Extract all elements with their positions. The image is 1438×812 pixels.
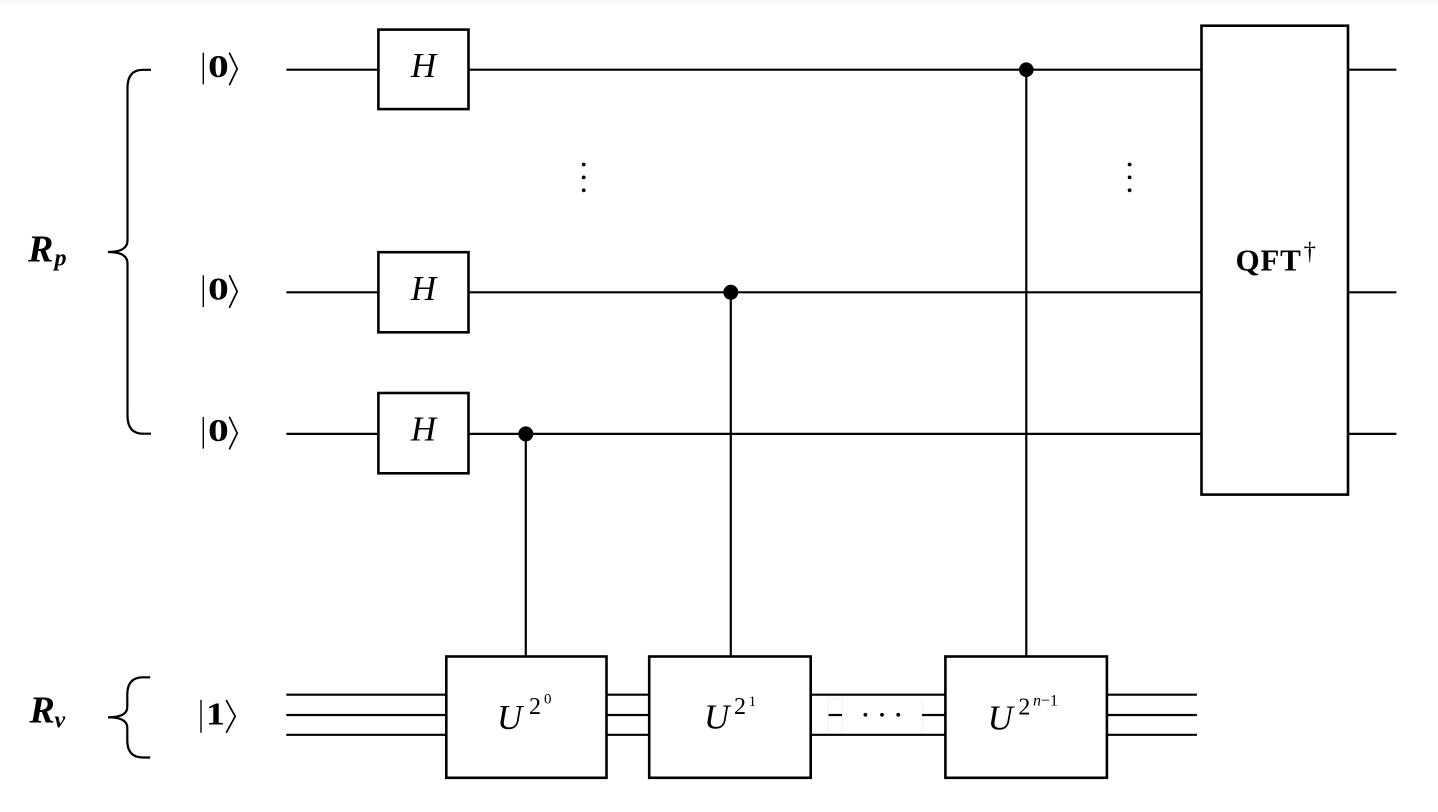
- svg-text:2: 2: [529, 694, 541, 720]
- svg-text:v: v: [55, 708, 66, 734]
- svg-text:H: H: [410, 410, 438, 449]
- svg-text:1: 1: [749, 694, 757, 710]
- svg-text:H: H: [410, 46, 438, 85]
- svg-text:R: R: [27, 229, 53, 271]
- svg-text:U: U: [497, 698, 525, 737]
- svg-text:0: 0: [208, 49, 229, 84]
- svg-text:U: U: [704, 697, 732, 736]
- svg-text:p: p: [53, 246, 67, 272]
- svg-text:R: R: [29, 689, 55, 731]
- svg-text:U: U: [988, 698, 1016, 737]
- svg-text:1: 1: [206, 697, 225, 732]
- svg-text:0: 0: [544, 692, 552, 708]
- svg-text:2: 2: [734, 694, 746, 720]
- svg-text:n−1: n−1: [1033, 693, 1058, 710]
- svg-text:0: 0: [208, 272, 229, 307]
- svg-text:H: H: [410, 269, 438, 308]
- svg-text:2: 2: [1018, 694, 1030, 720]
- svg-text:†: †: [1304, 239, 1317, 266]
- svg-text:QFT: QFT: [1236, 242, 1302, 277]
- svg-text:0: 0: [208, 414, 229, 449]
